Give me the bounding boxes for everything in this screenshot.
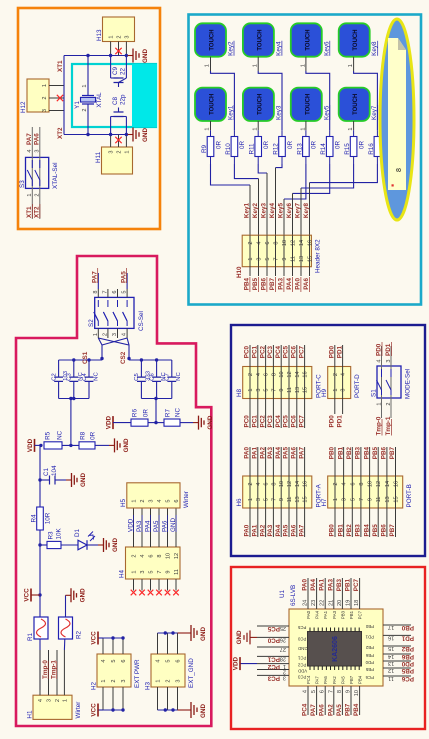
- svg-text:H7: H7: [321, 498, 328, 507]
- svg-text:PA1: PA1: [252, 524, 259, 536]
- pin 2 U1 (top): [257, 669, 289, 671]
- pin 16 U1 (bottom): [383, 634, 411, 636]
- svg-text:GND: GND: [142, 49, 149, 63]
- pin S1 row 2: [390, 346, 392, 418]
- svg-text:16: 16: [394, 481, 400, 487]
- svg-text:8: 8: [157, 554, 163, 557]
- power flag VCC (H2 left): [98, 709, 103, 711]
- svg-text:6S-LVB: 6S-LVB: [290, 585, 297, 606]
- svg-text:3: 3: [42, 109, 48, 112]
- svg-text:14: 14: [388, 653, 394, 659]
- pin 1/2 H10: [249, 235, 251, 276]
- pin 7/8 H10: [275, 235, 277, 276]
- svg-text:PA6: PA6: [34, 133, 41, 145]
- svg-text:14: 14: [299, 240, 305, 246]
- svg-text:PC7: PC7: [353, 579, 360, 592]
- svg-text:PB5: PB5: [372, 447, 379, 460]
- svg-text:5: 5: [166, 499, 172, 502]
- resistor R9: [207, 137, 214, 157]
- node crystal-XT2: [86, 133, 89, 136]
- no-connect X H12: [57, 95, 63, 101]
- svg-text:PA2: PA2: [259, 447, 266, 459]
- svg-text:VDD: VDD: [106, 416, 113, 430]
- pin 3 S2: [117, 328, 119, 338]
- capacitor C4: [88, 381, 90, 398]
- resistor R5: [44, 442, 62, 449]
- svg-text:PA4: PA4: [275, 447, 282, 459]
- svg-text:5: 5: [122, 290, 128, 293]
- svg-text:PB6: PB6: [401, 653, 414, 660]
- svg-text:NC: NC: [176, 372, 182, 381]
- svg-text:3: 3: [112, 333, 118, 336]
- svg-text:EXT_GND: EXT_GND: [188, 658, 195, 688]
- node H11 pin3: [109, 133, 112, 136]
- wire R2 to GND: [65, 595, 67, 617]
- pin 4 S2: [126, 328, 128, 338]
- capacitor C3: [73, 381, 75, 398]
- ground GND (H3 left): [178, 709, 192, 711]
- svg-text:PB5: PB5: [372, 524, 379, 537]
- pin 5/6 H8: [265, 345, 267, 428]
- pin 3/4 H10: [258, 235, 260, 276]
- svg-text:PB6: PB6: [365, 653, 374, 658]
- svg-text:PB1: PB1: [337, 524, 344, 537]
- svg-text:PB3: PB3: [340, 610, 345, 619]
- svg-text:16: 16: [303, 481, 309, 487]
- svg-text:R7: R7: [165, 409, 172, 418]
- wire XT bus: [63, 56, 65, 135]
- node crystal-XT1: [86, 54, 89, 57]
- svg-text:11: 11: [388, 675, 394, 681]
- pin 7/8 H8: [272, 345, 274, 428]
- port block outline: [231, 325, 425, 556]
- svg-text:1: 1: [248, 388, 254, 391]
- pin 1/2 H9: [334, 345, 336, 414]
- svg-text:2: 2: [132, 554, 138, 557]
- svg-text:PA4: PA4: [310, 579, 317, 591]
- pin 5/6 H6: [265, 447, 267, 537]
- pin 11/12 H10: [292, 235, 294, 276]
- wire Key8 to resistor: [354, 71, 378, 130]
- svg-text:PA4: PA4: [315, 610, 320, 618]
- svg-text:1: 1: [62, 699, 68, 702]
- svg-text:PA6: PA6: [291, 524, 298, 536]
- svg-text:6: 6: [174, 499, 180, 502]
- svg-text:4: 4: [156, 659, 162, 662]
- svg-text:9: 9: [279, 498, 285, 501]
- svg-text:1: 1: [252, 127, 258, 130]
- capacitor C7: [171, 381, 173, 398]
- wire Key6 net: [293, 164, 330, 193]
- svg-text:R6: R6: [132, 409, 139, 418]
- wire Key4 net: [276, 164, 283, 168]
- switch S1 (MODE-Sel): [377, 366, 401, 398]
- svg-text:TOUCH: TOUCH: [305, 94, 311, 115]
- svg-text:13: 13: [295, 387, 301, 393]
- switch blade S2: [94, 300, 99, 326]
- svg-text:2: 2: [140, 499, 146, 502]
- touch button Key4: [243, 23, 274, 56]
- svg-text:D1: D1: [74, 528, 81, 537]
- svg-text:Key8: Key8: [303, 203, 310, 219]
- svg-text:PC3: PC3: [297, 674, 306, 679]
- svg-text:NC: NC: [57, 430, 64, 440]
- svg-text:0R: 0R: [215, 141, 222, 150]
- pin 15/16 H8: [304, 345, 306, 428]
- svg-text:S1: S1: [371, 389, 378, 397]
- power/writer block outline: [16, 256, 211, 726]
- svg-text:PB0: PB0: [329, 524, 336, 537]
- IC U1 body: [289, 609, 383, 686]
- svg-text:9: 9: [282, 257, 288, 260]
- wire H4-H5: [141, 508, 143, 547]
- svg-text:H13: H13: [96, 29, 103, 41]
- svg-text:PA1: PA1: [319, 579, 326, 591]
- svg-text:PB5: PB5: [365, 667, 374, 672]
- pin 27 U1 (top): [257, 646, 289, 648]
- svg-text:3: 3: [342, 498, 348, 501]
- pin 26 U1 (top): [257, 636, 289, 638]
- svg-text:R15: R15: [344, 143, 351, 155]
- svg-text:U1: U1: [279, 589, 286, 598]
- wire Key1 net: [211, 164, 251, 185]
- svg-text:22p: 22p: [120, 94, 127, 105]
- pin S3 row 1: [31, 127, 33, 219]
- svg-text:PORT-B: PORT-B: [406, 484, 413, 507]
- svg-text:PB7: PB7: [345, 703, 352, 716]
- svg-text:PC2: PC2: [259, 415, 266, 428]
- svg-text:1: 1: [132, 499, 138, 502]
- svg-text:4: 4: [27, 149, 33, 152]
- svg-text:PD0: PD0: [375, 343, 382, 356]
- svg-text:4: 4: [122, 333, 128, 336]
- svg-text:R5: R5: [45, 431, 52, 440]
- svg-text:11: 11: [291, 256, 297, 262]
- ground GND (XT1): [133, 49, 139, 63]
- svg-text:2: 2: [82, 108, 88, 111]
- svg-text:H1: H1: [27, 710, 34, 719]
- pin 5 U1 (left): [316, 686, 318, 715]
- svg-text:1: 1: [42, 84, 48, 87]
- no-connect X H4: [131, 590, 137, 596]
- resistor R4: [37, 507, 44, 530]
- cyan MCU area rect: [72, 64, 156, 127]
- pin 8 U1 (left): [341, 686, 343, 715]
- capacitor C1: [38, 478, 41, 481]
- svg-text:R8: R8: [80, 431, 87, 440]
- svg-text:PA0: PA0: [302, 579, 309, 591]
- svg-text:PA3: PA3: [332, 610, 337, 618]
- svg-text:15: 15: [394, 496, 400, 502]
- wire Key7 net: [301, 164, 354, 188]
- svg-text:PA2: PA2: [259, 524, 266, 536]
- svg-text:PA6: PA6: [291, 447, 298, 459]
- pin 5/6 H10: [266, 235, 268, 276]
- svg-text:3: 3: [124, 35, 130, 38]
- wire H4-H5: [133, 508, 135, 547]
- svg-text:2: 2: [35, 193, 41, 196]
- svg-text:XTAL: XTAL: [96, 92, 103, 108]
- svg-text:R13: R13: [296, 143, 303, 155]
- wire XT1 rail: [64, 55, 128, 57]
- pin 3/4 H7: [343, 447, 345, 537]
- svg-text:C2: C2: [51, 373, 57, 381]
- svg-text:PA3: PA3: [327, 579, 334, 591]
- svg-text:Wirter: Wirter: [183, 491, 190, 508]
- svg-text:PB1: PB1: [345, 579, 352, 592]
- svg-text:5: 5: [265, 257, 271, 260]
- svg-text:NC: NC: [93, 372, 99, 381]
- svg-text:PD1: PD1: [385, 343, 392, 356]
- header H9 (PORT-D): [328, 367, 351, 399]
- svg-text:3: 3: [109, 150, 115, 153]
- svg-text:GND: GND: [80, 473, 87, 487]
- resistor R7: [164, 419, 180, 426]
- svg-text:Key2: Key2: [228, 41, 235, 56]
- touch keys block outline: [189, 15, 422, 305]
- svg-text:13: 13: [385, 496, 391, 502]
- header H1 (Writer): [33, 695, 72, 719]
- touch button Key6: [291, 23, 322, 56]
- header H2 (EXT PWR): [97, 654, 131, 687]
- svg-text:9: 9: [368, 498, 374, 501]
- svg-text:PB4: PB4: [358, 675, 363, 684]
- svg-text:PORT-D: PORT-D: [354, 374, 361, 398]
- pin S1 row 1: [381, 346, 383, 418]
- resistor R1 (PTC): [34, 617, 48, 639]
- pin 9/10 H8: [280, 345, 282, 428]
- svg-text:0R: 0R: [287, 141, 294, 150]
- svg-text:TOUCH: TOUCH: [257, 94, 263, 115]
- pin 17 U1 (bottom): [383, 624, 411, 626]
- svg-text:1: 1: [283, 663, 286, 669]
- node bankA: [72, 358, 75, 361]
- wire XT2 rail: [64, 134, 128, 136]
- pin 6 U1 (left): [324, 686, 326, 715]
- pin 13 U1 (bottom): [383, 660, 411, 662]
- pin 9/10 H7: [369, 447, 371, 537]
- wire Key3 net: [258, 164, 267, 173]
- pin 10 U1 (left): [359, 686, 361, 715]
- wire Key8 net: [310, 164, 378, 183]
- capacitor bank B rails: [141, 398, 171, 400]
- svg-text:PB2: PB2: [346, 524, 353, 537]
- svg-text:CS1: CS1: [82, 351, 89, 364]
- wire H2 right join: [103, 637, 123, 639]
- switch S2 (CS-Sel): [95, 297, 134, 328]
- pin 3/4 H8: [257, 345, 259, 428]
- svg-text:PD0: PD0: [365, 660, 374, 665]
- svg-text:PB2: PB2: [346, 447, 353, 460]
- svg-text:21: 21: [328, 600, 334, 606]
- svg-text:Key1: Key1: [244, 203, 251, 219]
- pin 1/2 H7: [334, 447, 336, 537]
- svg-text:5: 5: [311, 690, 317, 693]
- svg-text:23: 23: [311, 600, 317, 606]
- ground GND (R2): [66, 594, 72, 596]
- svg-text:PD1: PD1: [336, 415, 343, 428]
- svg-text:13: 13: [388, 660, 394, 666]
- svg-text:Key8: Key8: [371, 41, 378, 56]
- svg-text:15: 15: [303, 496, 309, 502]
- pin 9/10 H6: [280, 447, 282, 537]
- wire H4-H5: [175, 508, 177, 547]
- touch button Key3: [243, 88, 274, 121]
- svg-text:10: 10: [368, 481, 374, 487]
- ground GND (row2): [95, 444, 109, 446]
- svg-text:PC4: PC4: [302, 703, 309, 716]
- svg-text:8: 8: [93, 290, 99, 293]
- pin 19 U1 (right): [350, 578, 352, 609]
- svg-text:9: 9: [346, 690, 352, 693]
- svg-text:3: 3: [386, 359, 392, 362]
- svg-text:2: 2: [42, 96, 48, 99]
- touch button Key5: [291, 88, 322, 121]
- svg-text:2: 2: [386, 402, 392, 405]
- svg-text:4: 4: [38, 699, 44, 702]
- svg-text:7: 7: [271, 498, 277, 501]
- svg-text:C5: C5: [134, 373, 140, 381]
- svg-text:7: 7: [274, 257, 280, 260]
- svg-text:10: 10: [279, 371, 285, 377]
- svg-text:PC0: PC0: [244, 346, 251, 359]
- pin 23 U1 (right): [316, 578, 318, 609]
- ground GND (row1): [180, 422, 193, 424]
- svg-text:10: 10: [354, 690, 360, 696]
- header H8 (PORT-C): [243, 367, 312, 399]
- svg-text:H8: H8: [236, 388, 243, 397]
- svg-text:PB2: PB2: [365, 645, 374, 650]
- node H13 pin3: [125, 54, 128, 57]
- crystal Y1: [82, 96, 94, 105]
- svg-text:12: 12: [287, 481, 293, 487]
- svg-text:H2: H2: [91, 681, 98, 690]
- pin 4 U1 (left): [307, 686, 309, 715]
- resistor R14: [326, 137, 333, 157]
- svg-text:18: 18: [354, 600, 360, 606]
- wire S2 cross diagonals: [102, 338, 127, 345]
- svg-text:0R: 0R: [335, 141, 342, 150]
- svg-text:2: 2: [333, 373, 339, 376]
- svg-text:8: 8: [359, 482, 365, 485]
- touch slider ellipse: [380, 19, 414, 220]
- svg-text:PA7: PA7: [298, 524, 305, 536]
- svg-text:20: 20: [337, 600, 343, 606]
- svg-text:PA6: PA6: [319, 704, 326, 716]
- svg-text:R9: R9: [201, 144, 208, 153]
- no-connect X H4: [139, 590, 145, 596]
- IC die: [308, 632, 362, 667]
- svg-text:PD0: PD0: [329, 346, 336, 359]
- svg-text:Wirter: Wirter: [75, 702, 82, 719]
- svg-text:C7: C7: [165, 373, 171, 381]
- slider note shape: [388, 38, 406, 190]
- svg-text:4: 4: [101, 659, 107, 662]
- svg-text:6: 6: [112, 290, 118, 293]
- header H6 (PORT-A): [243, 476, 312, 508]
- svg-text:TOUCH: TOUCH: [257, 29, 263, 50]
- svg-text:PA6: PA6: [323, 676, 328, 684]
- svg-text:PC5: PC5: [283, 346, 290, 359]
- svg-text:4: 4: [157, 499, 163, 502]
- svg-text:9: 9: [166, 570, 172, 573]
- svg-text:KA2606: KA2606: [332, 636, 339, 662]
- svg-text:H5: H5: [120, 498, 127, 507]
- svg-text:PA1: PA1: [323, 610, 328, 618]
- svg-text:R11: R11: [249, 143, 256, 155]
- svg-text:1: 1: [248, 257, 254, 260]
- svg-text:104: 104: [51, 465, 58, 476]
- svg-text:PC1: PC1: [297, 655, 306, 660]
- capacitor C8: [110, 117, 112, 135]
- svg-text:16: 16: [303, 371, 309, 377]
- svg-text:PC1: PC1: [267, 656, 280, 663]
- svg-text:4: 4: [303, 690, 309, 693]
- pin 9 U1 (left): [350, 686, 352, 715]
- node bankA tap: [69, 444, 72, 447]
- node R3 tap: [38, 543, 41, 546]
- svg-text:6: 6: [264, 482, 270, 485]
- touch button Key2: [195, 23, 226, 56]
- pin 1 S2: [97, 328, 99, 338]
- svg-text:13: 13: [295, 496, 301, 502]
- ground GND (C1): [66, 479, 72, 481]
- header H4 (12-pin): [126, 547, 181, 579]
- pin 15/16 H10: [309, 235, 311, 276]
- svg-text:1: 1: [248, 498, 254, 501]
- svg-text:GND: GND: [80, 588, 87, 602]
- svg-text:VDD: VDD: [298, 669, 307, 674]
- svg-text:4: 4: [342, 482, 348, 485]
- resistor R10: [231, 137, 238, 157]
- svg-text:H11: H11: [95, 151, 102, 163]
- resistor R6: [131, 419, 148, 426]
- svg-text:TOUCH: TOUCH: [210, 94, 216, 115]
- svg-text:PB3: PB3: [355, 447, 362, 460]
- header H7 (PORT-B): [328, 476, 403, 508]
- wire H2 left join: [103, 709, 123, 711]
- svg-text:R14: R14: [320, 143, 327, 155]
- svg-text:14: 14: [385, 481, 391, 487]
- wire bankB tap: [155, 399, 157, 423]
- pin 13/14 H6: [296, 447, 298, 537]
- svg-text:7: 7: [328, 690, 334, 693]
- svg-text:10R: 10R: [45, 512, 52, 524]
- svg-text:2: 2: [166, 679, 172, 682]
- capacitor C2: [58, 381, 60, 398]
- svg-text:11: 11: [376, 497, 382, 503]
- header H12: [27, 79, 49, 112]
- svg-text:9: 9: [279, 388, 285, 391]
- svg-text:MODE-Sel: MODE-Sel: [405, 369, 412, 399]
- svg-text:PB6: PB6: [381, 524, 388, 537]
- svg-text:H9: H9: [321, 388, 328, 397]
- svg-text:0R: 0R: [311, 141, 318, 150]
- svg-text:PD1: PD1: [365, 634, 374, 639]
- svg-text:PB0: PB0: [401, 624, 414, 631]
- svg-text:R3: R3: [48, 531, 55, 540]
- wire H1 pin1 to R2: [63, 639, 65, 650]
- svg-text:2: 2: [333, 482, 339, 485]
- svg-text:13: 13: [299, 256, 305, 262]
- svg-text:PC3: PC3: [267, 346, 274, 359]
- svg-text:PC4: PC4: [275, 415, 282, 428]
- svg-text:TOUCH: TOUCH: [353, 29, 359, 50]
- svg-text:3: 3: [257, 257, 263, 260]
- no-connect X H4: [165, 590, 171, 596]
- svg-text:Header 8X2: Header 8X2: [315, 239, 322, 273]
- svg-text:PA7: PA7: [298, 447, 305, 459]
